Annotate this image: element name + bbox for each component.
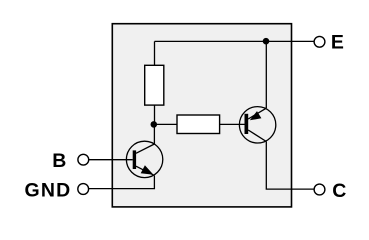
wire: Q1 base to B terminal: [89, 159, 133, 161]
wire: node to R2: [154, 123, 177, 125]
wire: Q1 emitter down and left to GND terminal: [88, 176, 154, 189]
wire: Q2 collector down and right to C terminal: [266, 142, 314, 190]
wire: node down to Q1 collector: [153, 124, 155, 144]
svg-text:C: C: [332, 180, 346, 202]
wire: Q2 emitter up to top rail: [265, 41, 267, 108]
wire: top rail to E: [155, 40, 315, 42]
IC package body: [112, 24, 291, 207]
terminal B: [78, 154, 89, 165]
resistor R1: [145, 65, 164, 105]
resistor R2: [177, 115, 220, 134]
svg-text:GND: GND: [25, 179, 72, 201]
svg-text:B: B: [52, 150, 66, 172]
svg-text:E: E: [331, 32, 344, 54]
transistor Q2 (PNP): [239, 107, 275, 143]
junction dot on top rail: [263, 38, 270, 45]
terminal E: [314, 36, 325, 47]
node A junction dot: [151, 121, 158, 128]
terminal GND: [78, 184, 89, 195]
wire: R1 top lead: [154, 41, 156, 65]
transistor Q1 (NPN): [126, 141, 162, 177]
wire: R1 bottom lead to node: [154, 105, 156, 124]
wire: R2 to Q2 base: [220, 123, 245, 125]
terminal C: [314, 184, 325, 195]
